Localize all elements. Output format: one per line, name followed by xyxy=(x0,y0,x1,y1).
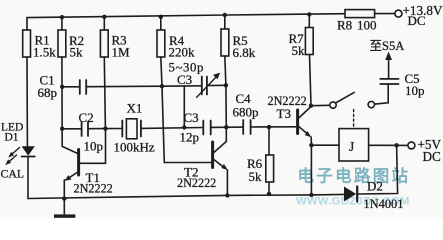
svg-text:100kHz: 100kHz xyxy=(114,140,155,155)
svg-text:DC: DC xyxy=(408,13,426,28)
capacitor C3 12p xyxy=(203,121,243,135)
svg-text:J: J xyxy=(349,139,354,154)
ground xyxy=(54,199,75,218)
svg-text:10p: 10p xyxy=(84,139,104,154)
node C1 left xyxy=(60,85,64,89)
svg-text:DC: DC xyxy=(423,149,442,164)
diode D2 xyxy=(311,187,357,202)
resistor R6 xyxy=(266,127,274,194)
svg-text:电子电路图站: 电子电路图站 xyxy=(298,166,411,186)
capacitor C2 xyxy=(62,122,105,136)
node rail-R3 xyxy=(102,15,106,19)
svg-text:1M: 1M xyxy=(112,45,131,60)
svg-text:5k: 5k xyxy=(292,43,306,58)
node T2 collector row xyxy=(224,125,228,129)
wire riser var-cap row to crystal row xyxy=(183,86,185,128)
node C1 right xyxy=(160,84,164,88)
+13.8V terminal xyxy=(395,10,402,17)
svg-text:T3: T3 xyxy=(277,106,291,121)
transistor T1 xyxy=(62,129,105,199)
wire switch to C5 xyxy=(375,84,389,104)
svg-text:C3: C3 xyxy=(184,110,199,125)
svg-text:12p: 12p xyxy=(180,130,200,145)
wire +5V node down to diode row xyxy=(358,145,398,194)
svg-text:1N4001: 1N4001 xyxy=(364,197,404,211)
wire R8 right lead xyxy=(375,13,396,15)
node rail-R7 xyxy=(307,12,311,16)
svg-text:至S5A: 至S5A xyxy=(370,39,405,53)
wire R4 column down to T2 base xyxy=(162,86,212,162)
switch lever xyxy=(336,92,354,102)
resistor R1 xyxy=(23,30,31,57)
svg-text:1.5k: 1.5k xyxy=(33,45,56,60)
node rail-R5 xyxy=(223,13,227,17)
node T3 collector xyxy=(309,104,313,108)
node T3 emitter relay xyxy=(309,143,313,147)
resistor R7 xyxy=(305,14,313,105)
capacitor C5 xyxy=(380,59,398,85)
resistor R2 xyxy=(58,17,66,146)
LED D1 xyxy=(22,146,35,198)
svg-text:C2: C2 xyxy=(79,110,94,125)
node rail-R2 xyxy=(60,15,64,19)
svg-text:68p: 68p xyxy=(38,85,58,100)
resistor R3 xyxy=(100,17,108,129)
svg-text:5k: 5k xyxy=(70,45,84,60)
node riser-row xyxy=(182,125,186,129)
svg-text:100: 100 xyxy=(357,17,377,32)
dashed link switch to relay xyxy=(353,110,355,128)
node diode anode rail xyxy=(309,193,313,197)
wire relay to +5V node xyxy=(369,144,408,146)
wire switch feed xyxy=(311,104,330,106)
svg-text:680p: 680p xyxy=(233,104,259,119)
capacitor C1 xyxy=(62,80,162,94)
svg-text:X1: X1 xyxy=(127,101,143,116)
svg-text:C3: C3 xyxy=(177,72,192,87)
capacitor C4 xyxy=(243,120,296,134)
svg-text:CAL: CAL xyxy=(1,167,25,181)
node rail-R4 xyxy=(159,15,163,19)
switch left contact xyxy=(330,102,336,108)
svg-text:220k: 220k xyxy=(169,45,196,60)
svg-text:6.8k: 6.8k xyxy=(233,45,256,60)
crystal X1 xyxy=(105,119,203,139)
node ground rail xyxy=(62,196,66,200)
node R6 top xyxy=(267,125,271,129)
wire bottom rail xyxy=(28,195,311,199)
wire T3 emitter node to relay xyxy=(311,144,339,146)
node +5V column xyxy=(394,143,398,147)
node C2 left xyxy=(60,127,64,131)
svg-text:R8: R8 xyxy=(337,17,352,32)
resistor R4 xyxy=(157,17,165,86)
wire R1 to LED xyxy=(26,57,28,146)
svg-text:5k: 5k xyxy=(249,169,263,184)
svg-text:2N2222: 2N2222 xyxy=(74,182,113,196)
node T2 emitter rail xyxy=(225,193,229,197)
transistor T3 xyxy=(298,107,312,195)
wire top rail xyxy=(27,14,345,18)
svg-text:10p: 10p xyxy=(405,83,425,98)
switch right contact xyxy=(368,101,374,107)
variable capacitor C3 xyxy=(162,73,225,98)
arrow to S5A xyxy=(385,52,392,61)
node varC3 right xyxy=(224,83,228,87)
transistor T2 xyxy=(213,129,228,196)
resistor R5 xyxy=(221,15,229,127)
relay J box xyxy=(339,129,369,161)
resistor R8 xyxy=(345,10,375,18)
svg-text:D1: D1 xyxy=(5,132,19,144)
LED emission arrows xyxy=(5,148,19,166)
node R6 bottom xyxy=(267,192,271,196)
node C2 right xyxy=(103,126,107,130)
+5V terminal xyxy=(408,142,415,149)
svg-text:D2: D2 xyxy=(367,178,383,193)
svg-text:2N2222: 2N2222 xyxy=(177,176,216,190)
